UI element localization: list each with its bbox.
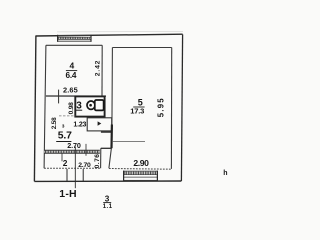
svg-text:4: 4 bbox=[70, 61, 75, 71]
room 2 tick at label bbox=[61, 154, 63, 162]
svg-text:17.3: 17.3 bbox=[130, 106, 144, 115]
svg-text:2.70: 2.70 bbox=[67, 141, 81, 150]
door jamb lower rung bbox=[101, 147, 112, 149]
svg-text:0.76: 0.76 bbox=[94, 154, 101, 169]
svg-text:5.95: 5.95 bbox=[156, 97, 165, 117]
room 4 wall right bbox=[101, 45, 103, 96]
outer wall right bbox=[181, 34, 182, 181]
dimension tick in room 4 bottom wall bbox=[58, 90, 60, 104]
room 5 wall bottom bbox=[109, 168, 171, 171]
svg-text:2.70: 2.70 bbox=[78, 162, 91, 169]
closet box below room 3 bbox=[87, 118, 112, 131]
svg-text:2.90: 2.90 bbox=[133, 158, 149, 168]
svg-text:2.42: 2.42 bbox=[94, 60, 101, 76]
room 3 number underline bbox=[76, 109, 82, 111]
room 4 fraction line bbox=[66, 70, 77, 72]
svg-text:з: з bbox=[62, 123, 65, 129]
svg-text:0.98: 0.98 bbox=[68, 102, 75, 115]
room 5 fraction line bbox=[133, 106, 144, 108]
dimension tick right of hall 2.70 bbox=[85, 144, 87, 156]
svg-text:2.65: 2.65 bbox=[63, 86, 78, 95]
svg-text:1-Н: 1-Н bbox=[59, 188, 77, 200]
leader line for unit label 1-N bbox=[74, 147, 76, 189]
hallway bottom wall hatched band bbox=[44, 150, 100, 153]
leader line into room 5 bbox=[112, 140, 145, 142]
svg-text:2: 2 bbox=[63, 158, 68, 168]
room 4 wall top inner bbox=[46, 44, 102, 46]
window W2 in bottom wall bbox=[124, 171, 158, 181]
room 5 wall left bbox=[109, 48, 113, 169]
svg-text:1.1: 1.1 bbox=[103, 204, 113, 210]
room 5 wall top bbox=[112, 47, 171, 49]
svg-text:5.7: 5.7 bbox=[58, 130, 72, 141]
room 3 bottom wall thin extension bbox=[59, 115, 75, 117]
svg-text:h: h bbox=[223, 170, 227, 177]
room 5 wall right bbox=[170, 48, 172, 169]
door jamb upper rung bbox=[101, 131, 112, 133]
outer wall top bbox=[36, 34, 183, 36]
outer wall left bbox=[34, 36, 36, 182]
faint scan line above top wall bbox=[57, 30, 183, 33]
outer wall bottom bbox=[34, 180, 181, 182]
room 2 wall bottom dashed bbox=[44, 167, 100, 169]
svg-text:3: 3 bbox=[105, 194, 110, 203]
room 3 (bathroom) wall box bbox=[75, 96, 104, 116]
svg-text:1.23: 1.23 bbox=[73, 121, 86, 128]
room 5 wall left dark segment at door bbox=[110, 125, 113, 149]
entrance door jamb left bbox=[66, 169, 68, 181]
closet door arrow bbox=[98, 121, 102, 125]
sheet fraction line bbox=[103, 202, 111, 204]
svg-text:6.4: 6.4 bbox=[66, 71, 77, 80]
hall area underline bbox=[56, 141, 71, 143]
bathtub in room 3 bbox=[87, 100, 104, 110]
window W1 in top wall bbox=[58, 35, 91, 42]
entrance door jamb right bbox=[82, 169, 84, 181]
svg-text:2.58: 2.58 bbox=[51, 117, 58, 129]
partition wall left line (lower) bbox=[100, 148, 102, 168]
inner wall left bbox=[44, 45, 46, 168]
room 4 wall bottom bbox=[46, 95, 106, 97]
